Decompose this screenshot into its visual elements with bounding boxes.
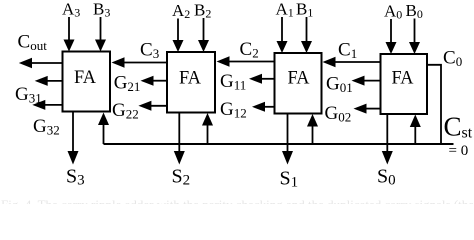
svg-text:B1: B1	[296, 0, 313, 20]
svg-text:G02: G02	[325, 103, 352, 125]
svg-text:G11: G11	[220, 71, 246, 93]
svg-text:G21: G21	[114, 73, 141, 95]
svg-text:Fig. 4. The carry ripple adder: Fig. 4. The carry ripple adder with the …	[1, 197, 474, 204]
svg-text:B2: B2	[194, 1, 211, 21]
svg-text:C1: C1	[338, 40, 357, 62]
svg-text:C2: C2	[240, 39, 259, 61]
svg-text:C3: C3	[140, 40, 159, 62]
svg-text:A0: A0	[384, 2, 402, 22]
svg-text:G31: G31	[15, 84, 42, 106]
svg-text:C0: C0	[443, 48, 462, 70]
svg-text:A1: A1	[276, 0, 294, 20]
svg-text:FA: FA	[179, 68, 201, 89]
svg-text:FA: FA	[288, 68, 310, 89]
svg-text:Cst: Cst	[444, 112, 473, 142]
svg-text:B0: B0	[406, 1, 423, 21]
svg-text:= 0: = 0	[449, 143, 469, 159]
svg-text:S1: S1	[280, 168, 299, 191]
svg-text:G22: G22	[112, 100, 139, 122]
svg-text:S2: S2	[172, 166, 191, 189]
svg-text:B3: B3	[93, 0, 110, 20]
svg-text:FA: FA	[74, 67, 96, 88]
svg-text:S3: S3	[66, 166, 85, 189]
svg-text:G01: G01	[326, 74, 353, 96]
svg-text:S0: S0	[377, 166, 396, 189]
svg-text:G12: G12	[220, 99, 247, 121]
svg-text:A3: A3	[62, 0, 80, 20]
svg-text:FA: FA	[392, 68, 414, 89]
svg-text:A2: A2	[172, 1, 190, 21]
svg-text:Cout: Cout	[18, 32, 48, 54]
svg-text:G32: G32	[33, 116, 60, 138]
